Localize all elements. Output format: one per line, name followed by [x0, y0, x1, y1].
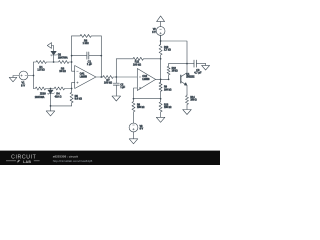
feedback right rail: [100, 36, 102, 77]
resistor R12: [167, 64, 170, 80]
output rail: [160, 59, 162, 83]
wire collector feed: [161, 41, 187, 64]
resistor R7: [101, 76, 116, 79]
svg-text:1N4733A: 1N4733A: [35, 96, 45, 99]
svg-text:2N2222: 2N2222: [186, 77, 195, 79]
transistor Q1 2N2222: [180, 75, 182, 83]
wire R5 bottom to ground node: [51, 105, 72, 107]
svg-text:1 MΩ: 1 MΩ: [83, 42, 89, 45]
resistor R10: [159, 35, 162, 58]
svg-text:1.5 kΩ: 1.5 kΩ: [37, 69, 44, 72]
resistor R1: [34, 61, 54, 64]
svg-text:ZD20: ZD20: [40, 93, 46, 95]
ground flag near V1: [13, 76, 19, 78]
ground under R14: [183, 110, 192, 115]
wire V2 down: [160, 35, 162, 44]
op-amp OA1 LM358: [75, 66, 96, 89]
svg-text:10 kΩ: 10 kΩ: [59, 70, 66, 73]
svg-text:LM358: LM358: [142, 79, 150, 81]
footer bar: [0, 151, 220, 165]
wire OA2 output: [156, 78, 169, 80]
wire plus input network: [134, 88, 138, 99]
wire R12 top: [169, 63, 187, 65]
resistor R2: [34, 87, 51, 90]
voltage source V2: [156, 27, 165, 36]
wire OA1 output: [96, 76, 103, 78]
svg-text:410 Ω: 410 Ω: [55, 95, 62, 98]
svg-text:R12: R12: [172, 68, 177, 70]
svg-text:http://circuitlab.com/c/uw64p5: http://circuitlab.com/c/uw64p5: [53, 159, 93, 163]
svg-text:100 kΩ: 100 kΩ: [137, 107, 145, 109]
ground right of C3: [205, 64, 207, 66]
ground under D1: [50, 106, 52, 111]
svg-text:OA1: OA1: [80, 73, 85, 76]
wire left rail: [33, 62, 35, 89]
svg-text:OA2: OA2: [142, 75, 147, 78]
svg-text:1 µF: 1 µF: [120, 87, 125, 89]
voltage source V1: [19, 71, 28, 80]
node flag above D2: [52, 46, 54, 51]
ground under C2: [112, 96, 121, 101]
wire to OA2 minus input: [116, 76, 137, 78]
resistor R6 feedback: [72, 34, 102, 37]
wire to OA1 minus input / feedback rail: [72, 36, 75, 71]
svg-text:R13: R13: [164, 104, 169, 106]
capacitor C3: [187, 63, 206, 65]
ground under R13: [156, 117, 165, 122]
resistor R3: [54, 61, 72, 64]
svg-text:a6225308 : circuit: a6225308 : circuit: [53, 154, 78, 158]
CircuitLab logo: [6, 154, 93, 163]
wire to OA1 plus input: [72, 83, 75, 89]
svg-text:0 V: 0 V: [140, 129, 144, 131]
svg-text:10 kΩ: 10 kΩ: [172, 71, 178, 73]
resistor R14: [186, 95, 189, 110]
wire divider to plus node: [134, 98, 161, 100]
svg-text:1N4734A: 1N4734A: [58, 56, 68, 59]
node flag above V2: [160, 22, 162, 27]
voltage source V3: [129, 123, 138, 132]
svg-text:5 V: 5 V: [152, 32, 156, 34]
zener diode D2 1N4734A: [51, 51, 56, 55]
resistor R9: [159, 79, 162, 98]
resistor R13: [159, 99, 162, 118]
resistor R5: [70, 89, 73, 106]
svg-text:5 V: 5 V: [21, 85, 25, 88]
svg-text:100 Ω: 100 Ω: [190, 100, 196, 102]
svg-text:100 kΩ: 100 kΩ: [164, 107, 172, 109]
svg-text:R10: R10: [164, 47, 169, 49]
op-amp OA2 LM358: [137, 69, 155, 91]
capacitor C1: [72, 55, 102, 57]
wire V1 to rail: [28, 75, 34, 77]
ground under V3: [133, 132, 135, 139]
svg-text:8.4 kΩ: 8.4 kΩ: [75, 98, 82, 101]
svg-text:LM358: LM358: [80, 76, 88, 78]
svg-text:LAB: LAB: [23, 160, 31, 164]
svg-text:R14: R14: [190, 97, 195, 99]
zener diode D1 1N4733A: [48, 90, 53, 94]
resistor R8: [132, 99, 135, 124]
capacitor C2: [115, 77, 117, 96]
svg-text:100 kΩ: 100 kΩ: [164, 89, 172, 91]
svg-text:100 kΩ: 100 kΩ: [104, 82, 112, 85]
svg-text:1 µF: 1 µF: [87, 63, 93, 66]
resistor R11 feedback: [115, 59, 117, 77]
svg-text:100 kΩ: 100 kΩ: [133, 63, 141, 66]
svg-text:4.7 µF: 4.7 µF: [194, 72, 202, 75]
resistor R4: [51, 87, 72, 90]
svg-text:2.7 kΩ: 2.7 kΩ: [164, 50, 171, 52]
